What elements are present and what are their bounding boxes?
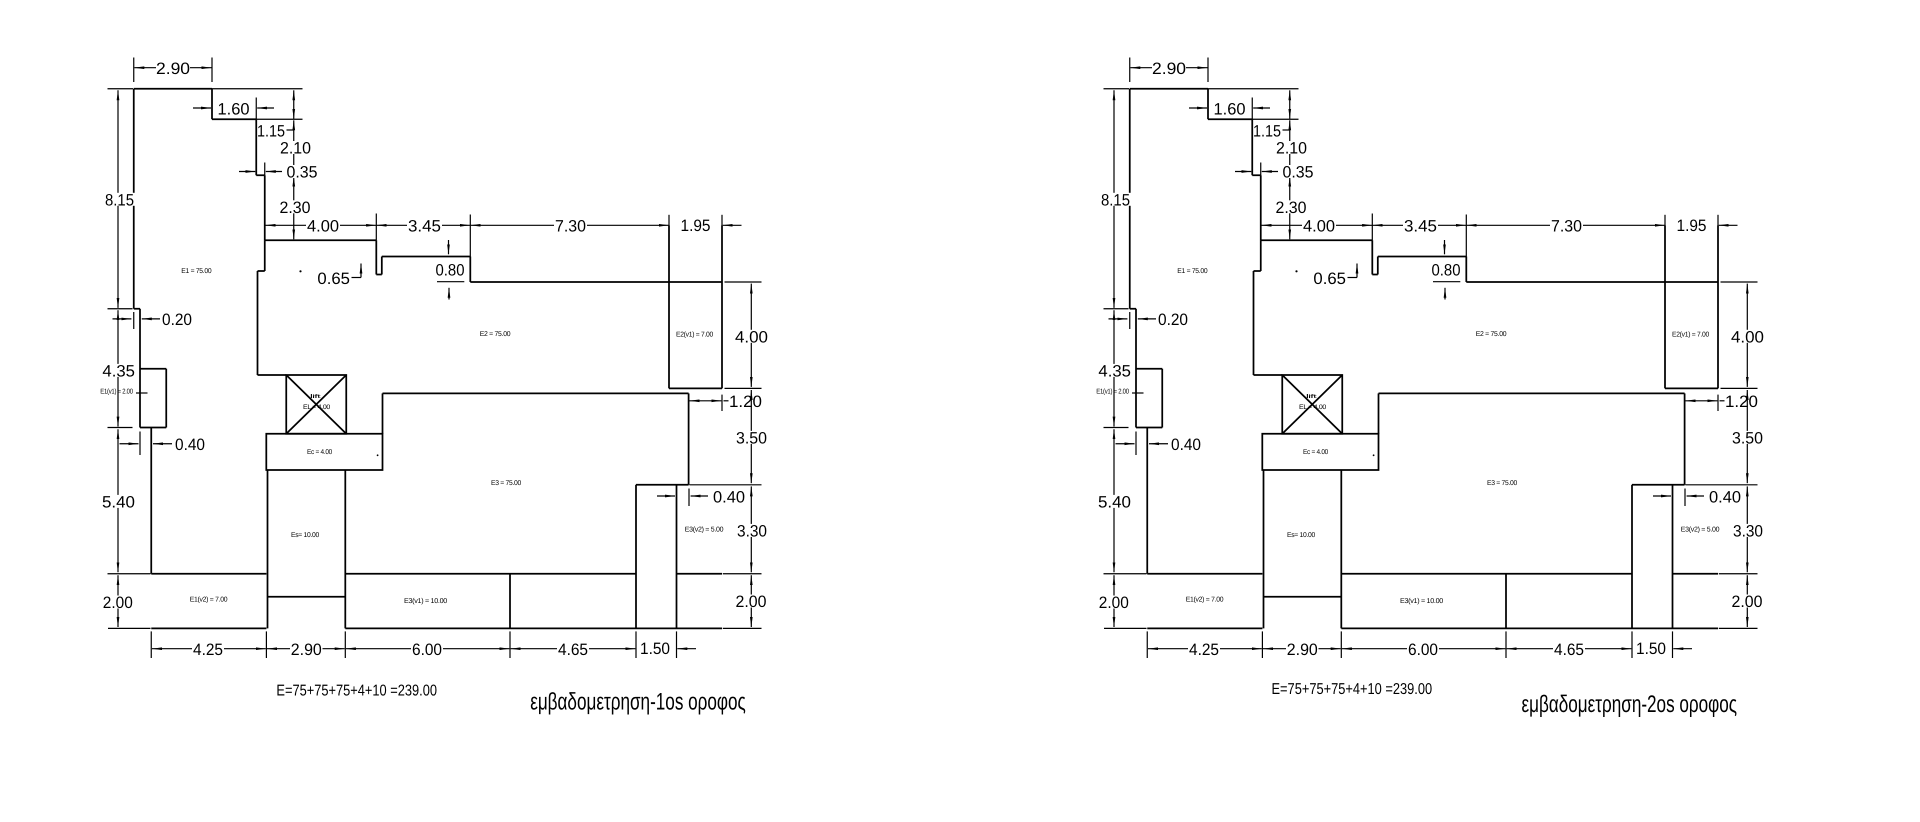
svg-text:3.45: 3.45 (408, 218, 441, 236)
dimension line 2.90 (134, 67, 211, 69)
wall: notch bottom (376, 274, 382, 276)
wall: left wall lower part (150, 428, 152, 574)
extension right of E2 long edge (725, 281, 762, 283)
extension at E1(v1) box bottom (108, 427, 133, 429)
svg-text:E=75+75+75+4+10 =239.00: E=75+75+75+4+10 =239.00 (276, 682, 437, 699)
svg-text:Es= 10.00: Es= 10.00 (291, 532, 319, 539)
dimension 0.40 right arrow (153, 443, 172, 445)
bottom extension tick 1 (150, 631, 152, 658)
extension of top edge to the right (212, 88, 303, 90)
wall: step down right of top edge (211, 89, 213, 120)
text mask 3.30 (736, 524, 768, 537)
dimension 1.50 right outside arrow (677, 648, 696, 650)
svg-text:1.60: 1.60 (218, 100, 250, 118)
lift shaft box (286, 375, 346, 434)
svg-text:Ec = 4.00: Ec = 4.00 (307, 449, 332, 456)
svg-text:5.40: 5.40 (102, 493, 135, 511)
wall: E3 step edge (636, 484, 689, 486)
extension right of E2(v1) bottom (725, 387, 762, 389)
wall: E1 inner jog vertical (264, 240, 266, 271)
wall: E2 upper edge (382, 256, 471, 258)
svg-text:E1(v2) = 7.00: E1(v2) = 7.00 (190, 596, 228, 604)
wall: 4.00 top edge of E2 (265, 239, 377, 241)
text mask 2.90 bottom (290, 643, 323, 656)
text mask 6.00 (411, 643, 443, 656)
dimension 0.40 left arrow (120, 443, 139, 445)
dimension line 2.10 (293, 120, 295, 175)
svg-text:εμβαδομετρηση-2os οροφος: εμβαδομετρηση-2os οροφος (1522, 691, 1738, 718)
svg-text:3.30: 3.30 (737, 522, 767, 540)
wall: E1 bottom edge to lift (258, 374, 287, 376)
svg-text:EL = 4.00: EL = 4.00 (303, 404, 331, 411)
svg-text:0.40: 0.40 (713, 488, 745, 506)
text mask 2.90 top (156, 62, 190, 75)
wall: vertical 2.10 segment (255, 119, 257, 175)
svg-text:1.50: 1.50 (640, 640, 670, 658)
text mask 5.40 (102, 495, 136, 508)
text mask 2.00 right (735, 595, 768, 608)
svg-text:lift: lift (310, 394, 322, 400)
dimension 0.80 upper arrow (448, 240, 450, 254)
dimension line 8.15 (117, 90, 119, 308)
svg-text:E3(v2) = 5.00: E3(v2) = 5.00 (685, 526, 724, 534)
wall: E2(v1) left (668, 225, 670, 388)
extension at 0.20 jog (108, 308, 133, 310)
bottom extension tick 6 (676, 631, 678, 658)
leader from E1(v1) label (136, 392, 148, 394)
wall: strip top right (E3v1) (345, 573, 636, 575)
wall: Es stair right (344, 470, 346, 628)
extension tick left of 2.90 (133, 58, 135, 83)
wall: E3 left (382, 393, 384, 433)
wall: notch left side (375, 240, 377, 274)
dimension 0.20 right arrow (142, 318, 160, 320)
wall: 0.35 step edge (256, 174, 265, 176)
svg-text:1.20: 1.20 (729, 393, 762, 411)
extension at top-left corner (108, 88, 134, 90)
extension right of strip top (723, 573, 762, 575)
svg-text:3.50: 3.50 (736, 429, 767, 447)
text mask 2.00 left (102, 596, 133, 609)
svg-text:E=75+75+75+4+10 =239.00: E=75+75+75+4+10 =239.00 (1272, 681, 1433, 698)
svg-text:0.20: 0.20 (162, 311, 192, 329)
lift shaft diagonal 2 (286, 375, 346, 434)
extension tick above E2 step (469, 215, 471, 257)
wall: Es stair bottom (268, 596, 346, 598)
extension at strip bottom left (108, 627, 151, 629)
svg-text:εμβαδομετρηση-1os οροφος: εμβαδομετρηση-1os οροφος (530, 689, 746, 716)
text mask 4.00 top (306, 219, 340, 232)
dimension 1.20 double arrow (690, 400, 722, 402)
svg-text:1.15: 1.15 (257, 122, 285, 140)
wall: E2 step down at right of upper edge (469, 257, 471, 283)
dimension line 3.30 (750, 486, 752, 572)
wall: left wall below jog (139, 309, 141, 428)
wall: strip divider (509, 574, 511, 629)
svg-text:4.00: 4.00 (735, 328, 768, 346)
wall: E3 top edge (383, 392, 689, 394)
wall: E2 long horizontal edge (470, 281, 722, 283)
text mask 3.45 (407, 219, 442, 232)
svg-text:6.00: 6.00 (412, 641, 442, 659)
dimension line 2.00 left (117, 575, 119, 627)
wall: E1 top edge (134, 88, 212, 90)
svg-text:2.00: 2.00 (736, 593, 767, 611)
text mask 2.10 (280, 141, 311, 154)
wall: E1 inner jog horizontal (258, 270, 265, 272)
svg-text:E3(v1) = 10.00: E3(v1) = 10.00 (404, 597, 447, 605)
stray dot in E1 (299, 270, 301, 272)
dimension 0.20 left arrow (113, 318, 132, 320)
svg-text:0.35: 0.35 (287, 164, 318, 182)
text mask 8.15 (104, 193, 135, 206)
extension right of E3 step (689, 484, 761, 486)
svg-text:0.80: 0.80 (436, 262, 465, 280)
svg-text:0.65: 0.65 (317, 270, 350, 288)
wall: 1.60 step edge (212, 118, 256, 120)
dimension line 4.35 (117, 310, 119, 426)
svg-text:4.00: 4.00 (307, 218, 339, 236)
wall: notch right side (381, 257, 383, 275)
bottom extension tick 3 (344, 631, 346, 658)
extension right of strip bottom (723, 627, 762, 629)
bottom extension tick 4 (509, 631, 511, 658)
extension tick below left wall (133, 312, 135, 329)
wall: left outer wall (133, 89, 135, 309)
svg-text:E3 = 75.00: E3 = 75.00 (491, 480, 521, 487)
dimension 1.60 left outside arrow (193, 107, 211, 109)
leader from 1.15 text (287, 129, 294, 131)
wall: E3(v2) left (635, 485, 637, 629)
svg-text:2.30: 2.30 (280, 199, 311, 217)
extension tick above 0.35 step (264, 163, 266, 176)
leader to 1.20 text (724, 400, 729, 402)
dimension 1.95 right outside arrow (723, 224, 742, 226)
wall: strip top far right (677, 573, 723, 575)
extension tick above E2(v1) right (721, 215, 723, 226)
extension tick below E1(v1) left (139, 432, 141, 456)
svg-text:4.35: 4.35 (102, 362, 135, 380)
svg-text:0.40: 0.40 (175, 436, 205, 454)
text mask 2.30 (279, 200, 311, 213)
svg-text:8.15: 8.15 (105, 191, 134, 209)
svg-text:E2 = 75.00: E2 = 75.00 (480, 331, 511, 338)
wall: E1 lower left wall (257, 271, 259, 375)
Ec corridor box (266, 434, 382, 470)
text mask 4.25 (192, 643, 224, 656)
svg-text:E2(v1) = 7.00: E2(v1) = 7.00 (676, 330, 713, 338)
extension tick for 0.40 right (688, 489, 690, 507)
wall: 0.20 jog (134, 308, 140, 310)
wall: vertical 2.30 segment (264, 175, 266, 240)
dimension line 4.00 top (266, 224, 377, 226)
svg-text:2.00: 2.00 (103, 594, 133, 612)
extension tick right of 2.90 (211, 58, 213, 83)
wall: strip bottom left (151, 627, 266, 629)
text mask 4.65 (557, 643, 589, 656)
dimension line 4.25 (152, 648, 266, 650)
wall: strip top left (E1v2) (151, 573, 266, 575)
stray dot near Ec (377, 454, 379, 456)
dimension line 4.00 right (750, 284, 752, 387)
svg-text:4.65: 4.65 (558, 641, 588, 659)
dimension line 2.30 (293, 177, 295, 240)
dimension 0.35 left outside arrow (239, 171, 255, 173)
wall: strip bottom right (345, 627, 722, 629)
dimension line 3.45 (377, 224, 471, 226)
dimension line 6.00 (346, 648, 510, 650)
svg-text:1.95: 1.95 (681, 217, 711, 235)
extension tick below E2(v1) right (721, 395, 723, 411)
svg-text:E1 = 75.00: E1 = 75.00 (181, 268, 211, 275)
extension tick above E2(v1) left (668, 215, 670, 226)
dimension line 1.15 (293, 90, 295, 119)
text mask 3.50 (735, 431, 768, 444)
dimension line 7.30 (471, 224, 669, 226)
wall: E3 right wall (688, 393, 690, 484)
dimension line 5.40 (117, 429, 119, 572)
svg-text:7.30: 7.30 (555, 218, 586, 236)
svg-text:4.25: 4.25 (193, 641, 223, 659)
dimension 0.80 lower arrow (448, 288, 450, 300)
wall: E1(v1) box right (165, 369, 167, 428)
dimension 1.60 right outside arrow (257, 107, 274, 109)
dimension 0.35 right outside arrow (266, 171, 282, 173)
dimension 0.40 right right-arrow (691, 495, 708, 497)
svg-text:2.10: 2.10 (280, 140, 311, 158)
extension of 1.60 step edge to the right (256, 118, 302, 120)
svg-text:E1(v1) = 2.00: E1(v1) = 2.00 (100, 388, 133, 396)
wall: E3(v2) right (676, 485, 678, 629)
svg-text:2.90: 2.90 (291, 641, 322, 659)
dimension line 2.90 bottom (267, 648, 345, 650)
wall: E1(v1) box top (140, 368, 166, 370)
leader from 0.65 text horizontal (352, 277, 362, 279)
extension at strip top left (108, 573, 151, 575)
wall: E2(v1) bottom (669, 387, 722, 389)
bottom extension tick 5 (635, 631, 637, 658)
dimension line 2.00 right (750, 575, 752, 627)
second floor plan (copy) (1096, 58, 1765, 660)
wall: E1(v1) box bottom (140, 427, 166, 429)
bottom extension tick 2 (265, 631, 267, 658)
text mask 4.35 (102, 364, 135, 377)
text mask 7.30 (554, 219, 587, 232)
dimension line 4.65 (511, 648, 636, 650)
text mask 4.00 right (734, 330, 769, 343)
extension tick above 4.00 right end (375, 214, 377, 241)
extension tick above 1.60 right end (255, 98, 257, 120)
lift shaft diagonal 1 (286, 375, 346, 434)
svg-text:2.90: 2.90 (156, 60, 190, 78)
dimension 0.80 underline extension (437, 281, 464, 283)
wall: E2(v1) right (721, 225, 723, 388)
dimension line 3.50 (750, 390, 752, 483)
wall: Es stair left (267, 470, 269, 628)
text mask 0.35 (287, 165, 318, 178)
leader from 0.65 text vertical arrow (360, 264, 362, 278)
dimension 0.40 right left-arrow (657, 495, 675, 497)
